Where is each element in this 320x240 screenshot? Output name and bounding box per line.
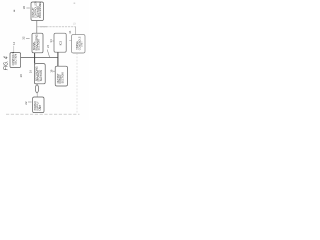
block U1 (top box) [31,2,44,21]
wire drop to U4 [75,27,77,35]
svg-text:22: 22 [24,101,28,105]
wire horizontal bus top [37,26,76,28]
svg-text:SECTION: SECTION [14,54,17,65]
tick left of U4 [69,40,71,42]
stray mark [14,10,15,12]
wire main horizontal bus [21,57,58,59]
block U2 [32,33,43,53]
lead line 22 [28,101,32,103]
svg-text:20: 20 [19,74,23,78]
svg-text:SECTION: SECTION [38,39,41,50]
block U8 text [34,101,42,111]
svg-text:UNIT: UNIT [39,104,42,110]
lead line 30 [26,7,29,9]
wire U6 to loop [36,84,38,85]
loop symbol [35,85,38,93]
wire U3 to U7 [57,52,59,66]
svg-text:14: 14 [12,41,16,45]
block U7 text [57,72,65,83]
svg-text:SECTION: SECTION [40,70,43,81]
wire faint drop from U4 to bottom [76,53,78,114]
svg-text:UNIT: UNIT [81,41,84,47]
wire darker segment [40,26,48,28]
lead line 24 [47,50,49,58]
svg-text:FIG. 4: FIG. 4 [3,56,9,70]
lead line 34 [52,40,54,42]
block U4 (right box) [72,35,85,53]
svg-text:SECTION: SECTION [61,72,64,83]
block U5 text [12,51,17,65]
block U2 text [33,34,41,50]
svg-text:24: 24 [46,45,50,48]
svg-text:PROCESSING: PROCESSING [39,2,42,18]
wire loop to U8 [36,93,38,97]
block U4 text [76,36,84,50]
block U1 text [32,1,42,18]
svg-text:32: 32 [22,36,26,40]
svg-text:36: 36 [68,30,72,34]
lead line 14 [13,46,15,53]
svg-text:30: 30 [22,6,26,10]
wire U1 to U2 [36,21,38,34]
stray mark top right [74,3,76,4]
block U8 (bottom box) [33,97,44,113]
block U5 (left box) [10,53,21,68]
block U7 [55,66,67,86]
lead line 32 [26,37,30,39]
lead line 18 [53,70,55,72]
block U3 [54,33,66,52]
block U6 [34,64,45,84]
svg-text:16: 16 [28,70,32,74]
wire U2 to U6 [34,53,36,64]
svg-text:IC2: IC2 [59,41,63,46]
block U6 text [35,66,43,81]
wire bottom dashed border [6,113,80,115]
